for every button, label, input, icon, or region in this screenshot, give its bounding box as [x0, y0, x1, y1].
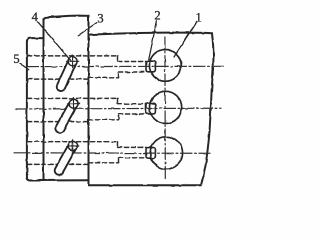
plate 3 middle vertical plate	[44, 16, 89, 186]
plate 5 left bar with rounded corners	[27, 38, 89, 180]
row 3 narrow pin	[118, 146, 147, 148]
pin circle on slot 3	[67, 140, 79, 152]
pin circle on slot 2	[67, 98, 79, 110]
pin end block row 1	[146, 61, 155, 72]
row 2 narrow pin	[118, 103, 147, 105]
vertical centerline through holes	[164, 37, 166, 179]
pin circle 4 (cross circle on slot 1)	[67, 55, 79, 67]
row 1 narrow pin	[118, 61, 147, 63]
svg-text:2: 2	[154, 9, 160, 23]
centerline row 2	[16, 107, 221, 110]
hole circle 3	[150, 137, 182, 169]
row 2 hidden lines: wide pin	[28, 97, 118, 99]
slot capsule 1	[57, 57, 77, 91]
centerline row 3	[14, 152, 210, 155]
leader 3	[78, 23, 97, 36]
svg-text:3: 3	[97, 12, 103, 26]
centerline row 1	[27, 65, 225, 67]
hole circle 2	[150, 91, 182, 123]
svg-text:1: 1	[195, 11, 201, 25]
leader 4	[38, 22, 71, 60]
slot capsule 3	[55, 142, 77, 175]
plate 2 big right plate outline	[89, 33, 214, 186]
leader 1	[174, 22, 197, 57]
pin end block row 3	[146, 148, 155, 159]
svg-text:4: 4	[32, 10, 39, 24]
svg-text:5: 5	[13, 52, 19, 66]
row 3 hidden lines: wide pin	[28, 141, 118, 143]
pin end block row 2	[146, 103, 155, 114]
hole circle 1	[149, 50, 181, 82]
slot capsule 2	[55, 100, 77, 133]
leader 5	[20, 64, 30, 70]
row 1 hidden lines: wide pin	[28, 56, 147, 164]
leader 2	[149, 21, 157, 60]
